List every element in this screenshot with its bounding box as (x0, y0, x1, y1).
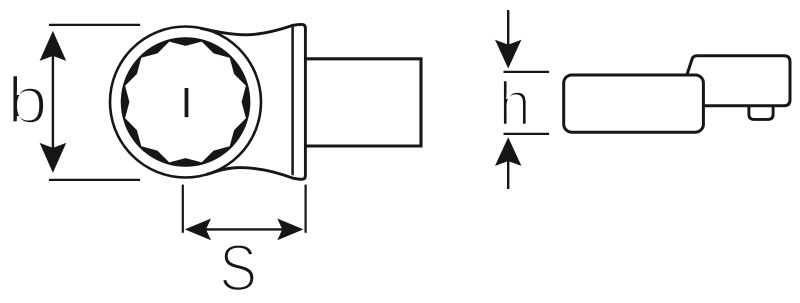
dimension h: top arrow shaft (507, 10, 509, 48)
dimension S: left arrowhead (185, 219, 211, 241)
side view: square-drive nub (749, 106, 773, 120)
svg-text:S: S (219, 232, 257, 303)
neck and collar outline (200, 24, 305, 179)
svg-text:b: b (7, 63, 48, 137)
dimension b: bottom extension line (49, 179, 140, 181)
dimension S: right extension line (305, 185, 307, 233)
side view: body (tang side) (564, 75, 704, 132)
side view: head profile (687, 56, 790, 106)
dimension S: right arrowhead (277, 219, 303, 241)
dimension b: arrow shaft (52, 52, 54, 152)
svg-text:h: h (499, 70, 531, 139)
center slot mark (185, 88, 189, 117)
dimension h: bottom extension line (504, 133, 550, 135)
dimension S: arrow line (203, 228, 286, 230)
ring head outer circle (front view) (110, 27, 261, 178)
dimension S: left extension line (182, 185, 184, 233)
dimension h: top arrowhead (pointing down) (495, 40, 521, 69)
dimension h: top extension line (504, 71, 550, 73)
collar crease line (291, 27, 294, 176)
tang rectangle (front view) (305, 59, 421, 146)
dimension h: bottom arrowhead (pointing up) (495, 137, 521, 166)
dimension b: top extension line (49, 24, 140, 26)
dimension b: bottom arrowhead (40, 143, 67, 173)
dimension h: bottom arrow shaft (507, 158, 509, 189)
12-point ring (black annulus with double-hex opening) (121, 37, 251, 167)
dimension b: top arrowhead (40, 31, 67, 61)
